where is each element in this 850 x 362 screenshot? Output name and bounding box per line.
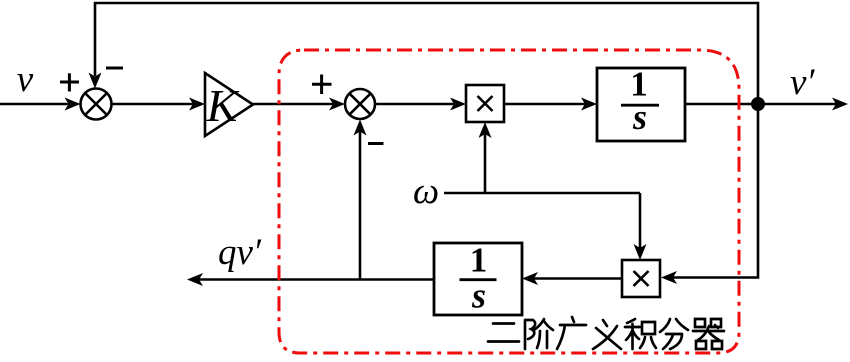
svg-text:v: v <box>17 59 34 100</box>
wire: omega branch down into M2 <box>634 193 647 260</box>
char: 分 <box>660 319 688 349</box>
svg-text:1: 1 <box>470 241 488 280</box>
wire: M2 to integrator I2 <box>522 272 622 285</box>
integrator I2 (1/s block) <box>434 241 522 316</box>
boundary: red dash-dot SOGI box <box>279 50 739 353</box>
svg-text:ω: ω <box>413 171 439 212</box>
integrator I1 (1/s block) <box>597 65 685 142</box>
wire: I2 output to qv' <box>187 273 434 286</box>
summing junction S1 <box>81 89 112 120</box>
label: minus sign at S2 <box>368 142 384 145</box>
svg-text:K: K <box>206 80 240 131</box>
svg-text:s: s <box>471 276 486 316</box>
wire: omega horizontal distribution line <box>444 192 640 195</box>
wire: top feedback from output node to S1 <box>89 3 759 104</box>
label: caption 二阶广义积分器 (drawn strokes) <box>488 317 724 349</box>
wire: omega branch up into M1 <box>479 122 492 193</box>
summing junction S2 <box>345 89 375 119</box>
char: 阶 <box>525 319 553 349</box>
label: plus sign at S1 <box>60 73 79 91</box>
wire: I1 to output v' <box>685 98 848 111</box>
wire: output node down to multiplier M2 <box>661 104 758 284</box>
char: 积 <box>625 319 656 349</box>
multiplier M2 (box with x) <box>622 260 660 297</box>
wire: input v into summing junction S1 <box>0 98 81 111</box>
label: minus sign at S1 <box>106 67 123 70</box>
wire: S2 to multiplier M1 <box>375 98 466 111</box>
wire: K to summing junction S2 <box>253 98 345 111</box>
char: 义 <box>593 320 621 349</box>
char: 广 <box>557 317 586 349</box>
node: junction dot on output line <box>751 97 765 111</box>
multiplier M1 (box with x) <box>466 85 504 122</box>
label: plus sign at S2 <box>312 75 332 95</box>
svg-text:qv′: qv′ <box>218 232 262 273</box>
wire: M1 to integrator I1 <box>504 98 597 111</box>
wire: S1 to gain K <box>112 98 206 111</box>
wire: branch from qv' line up into S2 (minus input) <box>354 120 367 280</box>
svg-text:v′: v′ <box>790 62 815 103</box>
svg-text:s: s <box>632 97 647 137</box>
char: 器 <box>693 319 724 349</box>
char: 二 <box>488 324 519 342</box>
gain block K (triangle) <box>205 73 253 136</box>
